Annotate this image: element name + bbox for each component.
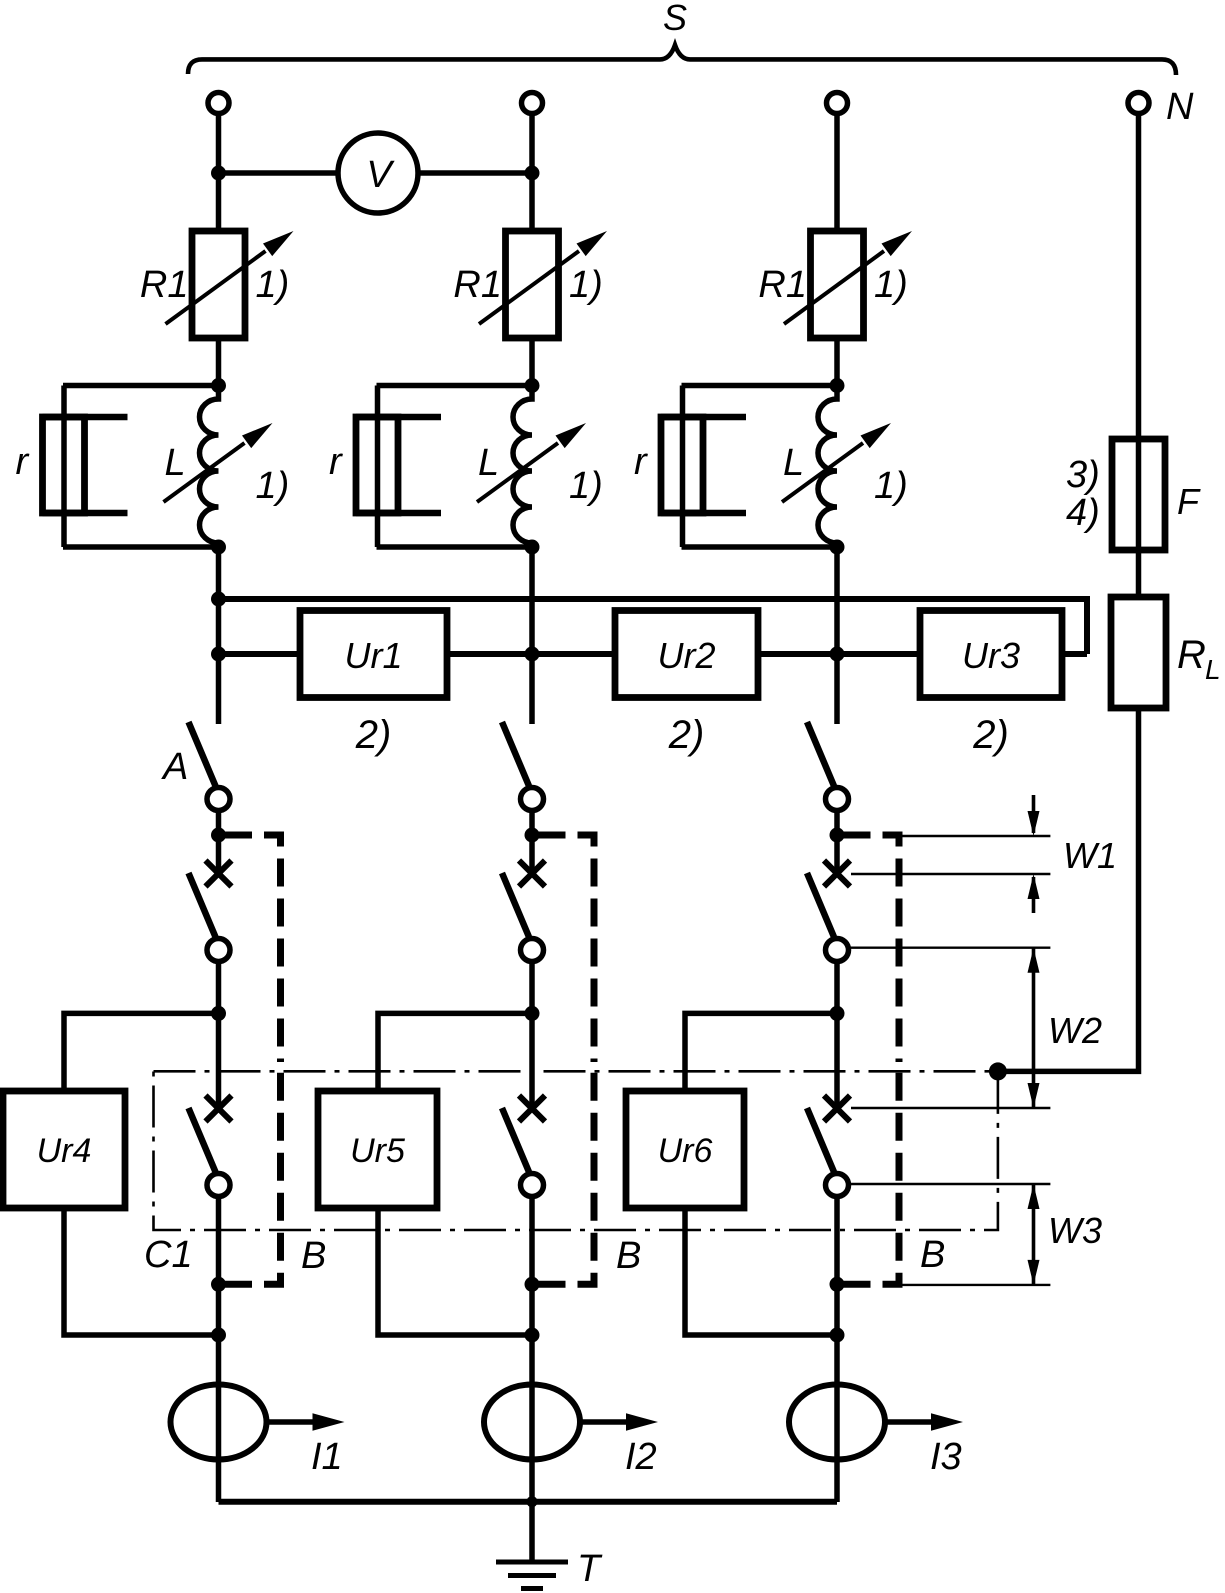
svg-text:V: V <box>366 154 395 196</box>
svg-text:2): 2) <box>668 713 705 757</box>
svg-text:W3: W3 <box>1048 1210 1102 1251</box>
svg-text:Ur2: Ur2 <box>657 635 715 676</box>
svg-text:3): 3) <box>1066 454 1100 496</box>
svg-text:B: B <box>616 1235 641 1277</box>
svg-text:I3: I3 <box>930 1436 962 1478</box>
svg-text:N: N <box>1166 86 1194 128</box>
svg-text:R: R <box>1177 633 1206 677</box>
svg-text:2): 2) <box>355 713 392 757</box>
svg-text:Ur5: Ur5 <box>350 1132 405 1170</box>
svg-text:I1: I1 <box>311 1436 343 1478</box>
svg-text:Ur3: Ur3 <box>962 635 1020 676</box>
svg-text:B: B <box>301 1235 326 1277</box>
svg-text:W2: W2 <box>1048 1010 1102 1051</box>
svg-text:Ur4: Ur4 <box>37 1132 92 1170</box>
svg-text:S: S <box>663 0 687 38</box>
svg-text:L: L <box>1205 654 1221 685</box>
svg-text:C1: C1 <box>144 1234 193 1276</box>
svg-text:F: F <box>1177 481 1201 522</box>
svg-text:T: T <box>577 1548 603 1590</box>
svg-text:4): 4) <box>1066 492 1100 534</box>
svg-text:B: B <box>920 1234 945 1276</box>
svg-text:W1: W1 <box>1063 835 1117 876</box>
svg-text:Ur1: Ur1 <box>344 635 402 676</box>
svg-text:Ur6: Ur6 <box>658 1132 713 1170</box>
svg-text:A: A <box>161 746 188 788</box>
svg-text:2): 2) <box>972 713 1009 757</box>
svg-text:I2: I2 <box>625 1436 657 1478</box>
